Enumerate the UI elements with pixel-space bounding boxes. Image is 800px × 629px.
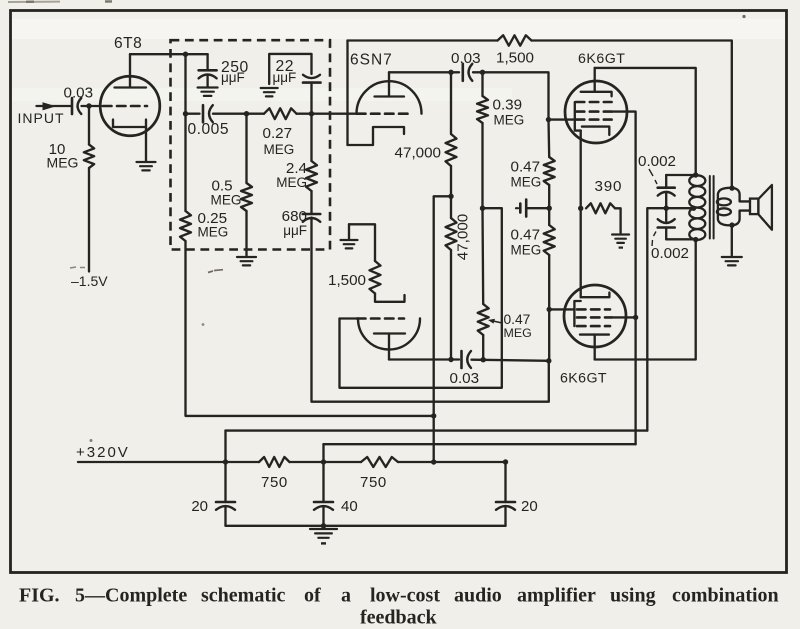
svg-text:MEG: MEG (494, 113, 525, 128)
svg-text:750: 750 (360, 474, 387, 491)
wire 0.005 to node (213, 113, 247, 115)
svg-text:MEG: MEG (511, 175, 542, 190)
scan smudge left (208, 270, 223, 273)
wire cathode to lower tube (580, 208, 582, 297)
node screen bus junction (633, 315, 638, 320)
svg-text:1,500: 1,500 (496, 50, 534, 67)
tube 6T8 grid dashes (103, 105, 147, 108)
tube 6SN7a envelope dome (357, 81, 422, 114)
tube 6K6 lower grid dashes (577, 308, 610, 311)
wire B+ branch (434, 196, 451, 462)
svg-text:MEG: MEG (264, 142, 295, 157)
node 0.39 bottom (480, 206, 485, 211)
leader 0.002 lower (652, 232, 656, 247)
svg-text:INPUT: INPUT (18, 110, 65, 126)
wire 2.4 MEG to 680 uuF (310, 191, 312, 214)
wire 0.03 lower to grid node (472, 360, 549, 361)
node coupling junction lower (546, 358, 551, 363)
wire 0.5 MEG to ground (245, 211, 247, 256)
node 0.5 MEG junction (244, 111, 249, 116)
node 0.25/B+ junction (431, 413, 436, 418)
wire cap to 0.47 node (526, 207, 549, 209)
svg-text:47,000: 47,000 (455, 214, 472, 260)
wire feedback to cathode (346, 41, 348, 146)
resistor 0.47 MEG lower (548, 208, 550, 225)
capacitor 0.03 input (71, 98, 74, 114)
ground 6T8 cathode (137, 162, 156, 170)
svg-text:0.47: 0.47 (511, 227, 541, 244)
svg-text:μμF: μμF (283, 223, 307, 238)
capacitor 250 uuF lead (206, 54, 208, 70)
resistor 47000 second (450, 196, 452, 218)
capacitor 0.005 (202, 105, 205, 122)
wire plate to transformer (595, 68, 696, 175)
wire bus right (398, 461, 506, 463)
resistor 0.47 MEG upper (547, 120, 550, 157)
tube 6T8 cathode lead (145, 127, 147, 161)
tube 6K6GT upper envelope (565, 81, 627, 143)
capacitor 680 uuF (303, 213, 321, 216)
node primary center tap (691, 206, 696, 211)
capacitor 20 uF second (504, 462, 506, 502)
resistor 390 (586, 203, 615, 213)
svg-text:MEG: MEG (276, 175, 307, 190)
tube 6K6 upper screen dashes (576, 101, 612, 104)
wire 0.002 lower to primary bottom (666, 238, 696, 240)
wire node to 2.4 MEG (310, 114, 312, 161)
tube 6SN7b grid dashes (357, 317, 404, 320)
node 0.27/2.4 junction (309, 111, 314, 116)
svg-text:a: a (341, 585, 351, 607)
transformer core (709, 176, 711, 239)
secondary outer top right (732, 188, 750, 202)
svg-text:6T8: 6T8 (114, 35, 142, 52)
tube 6SN7a cathode (348, 127, 405, 145)
wire 0.03 to grid node (473, 72, 549, 119)
svg-text:0.03: 0.03 (450, 370, 480, 387)
svg-text:1,500: 1,500 (328, 272, 366, 289)
node lower 6K6 grid (547, 307, 552, 312)
node 0.002 junction (664, 206, 669, 211)
secondary outer bottom right (732, 211, 750, 226)
wire 47k to B+ node (450, 166, 452, 196)
tube 6K6 lower plate (580, 333, 609, 335)
secondary outer left (718, 188, 732, 225)
wire +320V bus (78, 461, 259, 463)
svg-text:6K6GT: 6K6GT (578, 51, 625, 67)
resistor 2.4 MEG (306, 161, 317, 191)
tube 6T8 plate lead (129, 54, 131, 87)
node cathode 390 junction (578, 206, 583, 211)
tube 6K6 lower screen dashes (577, 316, 612, 319)
svg-text:0.002: 0.002 (638, 153, 676, 170)
wire to 0.005 cap (186, 113, 200, 115)
wire node to 0.27 MEG (247, 113, 265, 115)
resistor 0.5 MEG (241, 183, 252, 211)
wire filter ground rail (226, 525, 506, 527)
wire 0.002 mid to center tap (666, 207, 693, 209)
tube 6K6 lower plate lead (594, 335, 596, 360)
resistor 0.27 MEG (264, 108, 297, 119)
tube 6SN7b plate (374, 332, 405, 334)
svg-text:20: 20 (521, 498, 538, 515)
capacitor 0.002 upper (665, 175, 667, 188)
resistor 47000 first (450, 72, 452, 134)
node bus raw (223, 459, 228, 464)
svg-text:using: using (610, 585, 656, 607)
wire raw B+ to center tap line (226, 429, 648, 431)
wire 22 uuF to node (310, 83, 312, 114)
scan edge line top (8, 1, 60, 3)
wire feedback to secondary (532, 41, 732, 189)
svg-text:MEG: MEG (47, 155, 79, 171)
svg-text:6K6GT: 6K6GT (560, 371, 607, 387)
tube 6T8 envelope (100, 76, 160, 136)
wire 250 uuF to ground (206, 76, 208, 87)
svg-text:FIG.: FIG. (19, 585, 60, 607)
node 0.47 third bottom (481, 357, 486, 362)
node plate/47k junction (448, 70, 453, 75)
svg-text:MEG: MEG (504, 326, 532, 340)
wire node to 0.5 MEG (245, 114, 247, 183)
svg-text:MEG: MEG (211, 193, 242, 208)
svg-text:6SN7: 6SN7 (350, 52, 393, 69)
wire lower screen to bus (612, 316, 636, 318)
capacitor 20 uF first (224, 462, 226, 502)
capacitor 250 uuF (199, 69, 217, 72)
transformer primary winding (689, 175, 705, 240)
ground 250 uuF (198, 88, 218, 96)
tube 6T8 diode cup (113, 120, 146, 128)
input arrowhead (43, 102, 57, 110)
svg-text:47,000: 47,000 (395, 145, 441, 162)
node secondary bottom (729, 222, 734, 227)
node bus filtered (431, 459, 436, 464)
tube 6K6GT lower envelope (564, 285, 626, 347)
wire 0.39 to cap node (481, 123, 483, 208)
wire cathode down (580, 131, 582, 209)
resistor 750 first (259, 457, 290, 467)
wire 6SN7b plate line (389, 358, 459, 360)
leader 0.002 upper (649, 169, 657, 184)
tube 6K6 lower cathode (581, 293, 610, 298)
svg-text:of: of (304, 585, 321, 607)
node secondary top (729, 185, 734, 190)
capacitor 0.03 lower (460, 351, 463, 368)
svg-text:0.005: 0.005 (188, 121, 230, 138)
resistor 1500 feedback (498, 35, 532, 45)
svg-text:schematic: schematic (201, 585, 286, 607)
capacitor 0.002 lower (665, 208, 667, 221)
resistor 10 MEG (84, 145, 94, 169)
tube 6SN7b envelope dome (358, 319, 420, 350)
capacitor 22 uuF (303, 75, 320, 78)
scan speck mid left (202, 323, 205, 326)
svg-text:0.39: 0.39 (493, 97, 523, 114)
node 47k junction (448, 194, 453, 199)
transformer secondary winding (717, 198, 731, 205)
node bus screen (321, 459, 326, 464)
svg-text:0.002: 0.002 (651, 245, 689, 262)
svg-text:+320V: +320V (76, 444, 130, 461)
wire plate line down to 0.005 (184, 54, 186, 113)
svg-text:low-cost: low-cost (370, 585, 440, 607)
tube 6SN7b plate lead (388, 334, 390, 360)
ground filter rail (322, 526, 324, 528)
capacitor 40 uF (322, 462, 324, 502)
tube 6T8 plate (115, 86, 147, 88)
tube 6SN7a plate lead (388, 72, 390, 96)
tube 6K6 lower rail (574, 301, 580, 326)
wire screen supply line (324, 443, 636, 445)
wire secondary to ground (731, 224, 733, 255)
wire cap node to grid return (340, 208, 502, 388)
wire 6SN7a plate line (389, 71, 459, 73)
svg-text:5—Complete: 5—Complete (75, 585, 187, 607)
wire 6T8 plate line (130, 53, 208, 55)
wire 10 MEG to bias terminal (88, 168, 90, 272)
wire 22 uuF bracket (269, 54, 311, 84)
wire 0.47 third to coupling line (482, 335, 484, 360)
tube 6SN7b cathode (375, 294, 405, 302)
wire grid node down (548, 309, 550, 361)
wire lower plate to transformer (595, 240, 696, 360)
node 6K6 upper grid (546, 117, 551, 122)
node 0.005 left junction (183, 111, 188, 116)
tube 6K6 upper plate lead (594, 68, 596, 92)
ground 1500 cathode (348, 224, 350, 238)
input wire (37, 105, 72, 107)
bias terminal smudge (70, 267, 85, 268)
svg-text:390: 390 (595, 178, 623, 195)
wire lower grid entry (549, 308, 574, 310)
tube 6K6 upper grid dashes (576, 118, 612, 121)
tube 6K6 lower suppressor dashes (577, 325, 610, 328)
paper light band mid (12, 88, 512, 101)
svg-text:combination: combination (672, 585, 779, 607)
node rail ground (321, 523, 326, 528)
scan speck lower left (90, 439, 93, 442)
wire grid entry (549, 118, 575, 120)
ground speaker (722, 257, 742, 265)
svg-text:MEG: MEG (198, 225, 229, 240)
wire 0.47 lower to grid (548, 255, 550, 309)
wire 680 uuF feedback down (312, 218, 549, 402)
svg-text:μμF: μμF (221, 70, 245, 85)
svg-text:0.47: 0.47 (504, 312, 531, 327)
wire to 10 MEG (88, 106, 90, 145)
wire node to 0.25 MEG (184, 114, 186, 211)
svg-text:audio: audio (454, 585, 502, 607)
speaker cone (758, 185, 772, 230)
ground 0.5 MEG (237, 257, 256, 265)
wire grid line to 6SN7 (312, 113, 358, 115)
svg-text:20: 20 (191, 498, 208, 515)
wire 0.25 MEG to B+ node (186, 241, 434, 416)
wire 0.27 to node (297, 113, 312, 115)
wire bus mid (290, 461, 362, 463)
node primary bottom (693, 237, 698, 242)
svg-text:0.47: 0.47 (511, 159, 541, 176)
node plate line junction (183, 52, 188, 57)
resistor 1500 cathode (349, 224, 375, 261)
resistor 0.25 MEG (180, 211, 191, 241)
wire cap to 6T8 grid (82, 105, 102, 107)
resistor 750 second (361, 457, 398, 467)
wire screen to screen bus (612, 112, 636, 445)
svg-text:750: 750 (261, 474, 288, 491)
node 0.47 divider mid (547, 206, 552, 211)
wire primary top jog (666, 174, 696, 176)
resistor 0.47 MEG third (481, 208, 484, 304)
svg-text:μμF: μμF (273, 70, 297, 85)
svg-text:0.03: 0.03 (64, 85, 94, 102)
tube 6SN7b grid wire (340, 317, 358, 319)
ground 390 (612, 235, 629, 243)
svg-text:MEG: MEG (511, 243, 542, 258)
tube 6K6 upper grid rail (575, 102, 581, 131)
svg-text:amplifier: amplifier (517, 585, 596, 607)
ground 22 uuF (261, 88, 278, 96)
wire 0.47 upper to mid (548, 185, 550, 208)
node 0.39 top junction (480, 70, 485, 75)
tube 6K6 upper plate (581, 92, 612, 97)
wire 47k second to plate line (450, 250, 452, 360)
node 47k second bottom (448, 357, 453, 362)
node primary top (693, 172, 698, 177)
tube 6SN7a grid dashes (357, 112, 408, 115)
node input grid junction (86, 103, 91, 108)
svg-text:40: 40 (341, 498, 358, 515)
tube 6SN7a plate (375, 95, 405, 97)
svg-text:0.03: 0.03 (451, 50, 481, 67)
capacitor grid network (519, 204, 522, 213)
resistor 0.39 MEG (481, 72, 483, 96)
svg-text:feedback: feedback (360, 607, 438, 629)
wire 0.002 mid to B+ line (647, 208, 666, 430)
tube 6K6 upper cathode (582, 127, 609, 135)
wire feedback top line (348, 39, 498, 41)
paper light band upper (12, 19, 786, 39)
node bus end (503, 459, 508, 464)
svg-text:0.27: 0.27 (263, 125, 293, 142)
speaker driver (750, 199, 758, 215)
capacitor 0.03 interstage (461, 64, 464, 81)
scan speck top right (742, 15, 745, 18)
dashed enclosure tone network (171, 40, 331, 249)
svg-text:–1.5V: –1.5V (71, 273, 108, 289)
